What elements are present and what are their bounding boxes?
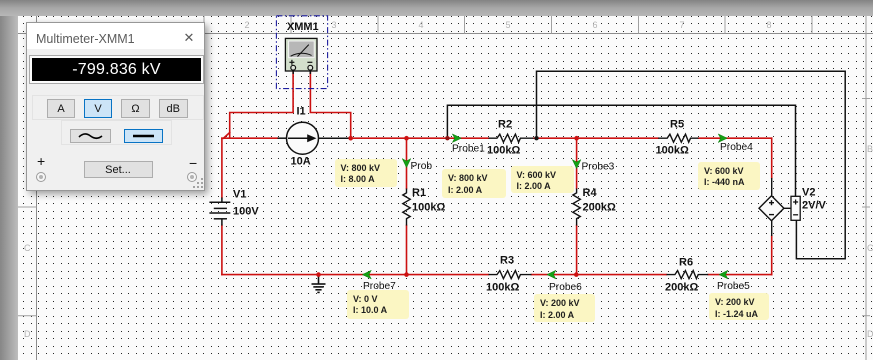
- node junction R4 top: [574, 136, 579, 141]
- ruler ticks right line: [862, 99, 870, 316]
- wire bottom middle segment: [532, 274, 667, 276]
- svg-text:100kΩ: 100kΩ: [412, 202, 445, 214]
- wire R4 top vertical: [576, 138, 578, 188]
- multimeter dialog window: [26, 22, 205, 191]
- wire XMM1 left diagonal jog: [224, 133, 230, 139]
- wire R1 bottom vertical: [406, 226, 408, 275]
- svg-text:XMM1: XMM1: [287, 21, 319, 33]
- node junction XMM1 right: [348, 136, 353, 141]
- node junction ground: [316, 272, 321, 277]
- wire XMM1 right lead: [310, 70, 350, 139]
- current source I1: [278, 122, 349, 154]
- resistor R4: [573, 189, 580, 226]
- wire main top left segment: [222, 137, 278, 139]
- svg-text:V2: V2: [802, 187, 815, 199]
- svg-text:Probe6: Probe6: [549, 282, 582, 293]
- probe Probe6 arrow: [547, 270, 556, 279]
- wire between R2 and R5: [534, 137, 659, 139]
- wire bottom left segment: [222, 274, 489, 276]
- svg-text:100V: 100V: [233, 206, 259, 218]
- svg-text:R4: R4: [583, 187, 598, 199]
- wire R4 bottom vertical: [576, 226, 578, 275]
- node junction feedback B: [445, 136, 449, 140]
- resistor R1: [403, 189, 410, 226]
- svg-text:C: C: [24, 243, 31, 253]
- ruler horizontal sheet line: [18, 33, 873, 35]
- svg-text:R6: R6: [679, 257, 693, 269]
- node junction feedback A: [534, 136, 538, 140]
- wire V1 bottom vertical: [221, 226, 223, 275]
- svg-text:100kΩ: 100kΩ: [486, 282, 519, 294]
- node junction R1 bottom: [404, 272, 409, 277]
- probe callout V:200kV I:2.00A: [534, 294, 595, 322]
- sheet right border line: [865, 16, 867, 360]
- svg-text:6: 6: [592, 20, 597, 30]
- multimeter XMM1 symbol: [285, 38, 317, 74]
- node junction R1 top: [404, 136, 409, 141]
- V2 input terminal box: [791, 196, 800, 220]
- svg-text:100kΩ: 100kΩ: [487, 145, 520, 157]
- svg-text:I1: I1: [297, 106, 306, 118]
- svg-text:5: 5: [505, 20, 510, 30]
- probe callout V:800kV I:2.00A: [442, 169, 506, 198]
- svg-text:R5: R5: [670, 119, 684, 131]
- svg-text:D: D: [24, 329, 31, 339]
- probe Prob arrow (R1 branch): [402, 159, 411, 168]
- resistor R6: [667, 271, 709, 279]
- svg-text:D: D: [867, 329, 873, 339]
- wire V2 output bottom vertical: [771, 236, 773, 275]
- wire main top middle segment: [349, 137, 489, 139]
- svg-text:4: 4: [418, 20, 423, 30]
- wire XMM1 left lead: [230, 70, 293, 139]
- probe callout V:800kV I:8.00A: [335, 159, 398, 187]
- svg-text:Probe1: Probe1: [452, 144, 485, 155]
- svg-text:Probe4: Probe4: [720, 142, 753, 153]
- svg-text:V1: V1: [233, 189, 246, 201]
- svg-text:Probe3: Probe3: [582, 162, 615, 173]
- probe Probe4 arrow: [718, 134, 727, 143]
- resistor R5: [658, 134, 698, 142]
- svg-text:200kΩ: 200kΩ: [665, 282, 698, 294]
- wire V2 output top vertical: [771, 138, 773, 178]
- svg-text:Prob: Prob: [411, 161, 433, 172]
- svg-text:200kΩ: 200kΩ: [583, 202, 616, 214]
- svg-text:100kΩ: 100kΩ: [656, 145, 689, 157]
- battery V1: [209, 198, 230, 226]
- svg-text:8: 8: [766, 20, 771, 30]
- probe Probe1 arrow: [452, 134, 461, 143]
- node junction R4 bottom: [574, 272, 579, 277]
- wire V1 top vertical: [221, 138, 223, 197]
- probe callout V:0V I:10.0A: [347, 290, 409, 319]
- svg-text:10A: 10A: [291, 156, 311, 168]
- probe callout V:200kV I:-1.24uA: [709, 293, 769, 320]
- ruler vertical sheet line: [36, 16, 38, 360]
- svg-text:2: 2: [244, 20, 249, 30]
- wire R1 top vertical: [406, 138, 408, 188]
- probe callout V:600kV I:-440nA: [698, 162, 760, 190]
- window chrome top bar: [0, 0, 873, 16]
- group frame 1: [32, 95, 204, 120]
- svg-text:2V/V: 2V/V: [802, 200, 827, 212]
- resistor R2: [489, 134, 534, 142]
- wire bottom right segment: [708, 274, 772, 276]
- resistor R3: [489, 271, 532, 279]
- probe Probe7 arrow: [362, 270, 371, 279]
- svg-text:Probe5: Probe5: [717, 281, 750, 292]
- XMM1 selection dashed box: [276, 16, 327, 89]
- probe callout V:600kV I:2.00A: [511, 166, 575, 194]
- svg-text:R2: R2: [498, 119, 512, 131]
- probe Probe5 arrow: [719, 270, 728, 279]
- window chrome left edge: [0, 16, 18, 360]
- probe Probe3 arrow: [572, 160, 581, 169]
- svg-text:C: C: [867, 243, 873, 253]
- svg-text:B: B: [867, 144, 873, 154]
- dependent source V2: [759, 178, 791, 236]
- ground: [312, 275, 326, 293]
- wire black feedback B (node A to V2 plus input): [447, 105, 795, 196]
- ruler tick marks top: [204, 16, 812, 34]
- wire after R5 to V2: [699, 137, 772, 139]
- svg-text:3: 3: [331, 20, 336, 30]
- ruler numbers: [244, 20, 771, 30]
- svg-text:R3: R3: [500, 255, 514, 267]
- svg-text:R1: R1: [412, 187, 426, 199]
- wire black feedback A (node B to V2 minus input): [537, 71, 846, 259]
- ruler tick marks left: [18, 207, 37, 316]
- svg-text:7: 7: [679, 20, 684, 30]
- group frame 2: [61, 120, 172, 145]
